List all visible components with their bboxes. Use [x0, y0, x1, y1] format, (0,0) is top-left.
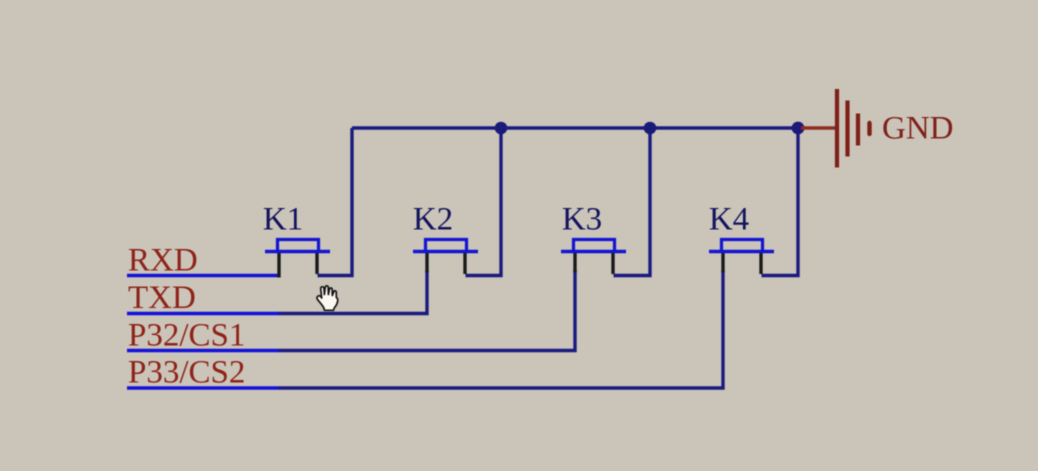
svg-text:K2: K2 [413, 202, 453, 238]
svg-text:K3: K3 [562, 202, 602, 238]
svg-text:P33/CS2: P33/CS2 [128, 355, 245, 391]
svg-text:K4: K4 [709, 202, 749, 238]
wire: P33/CS2 to K4 left pin [279, 270, 723, 388]
push button K1 [265, 240, 330, 278]
svg-text:TXD: TXD [128, 280, 196, 316]
push button K2 [413, 240, 478, 275]
svg-text:RXD: RXD [128, 243, 198, 279]
junction at bus / GND [792, 122, 805, 135]
junction at bus / K3 branch [644, 122, 657, 135]
terminal wire TXD [127, 312, 280, 316]
svg-text:K1: K1 [263, 202, 303, 238]
push button K4 [709, 240, 774, 275]
wire: K3 right pin to bus [614, 128, 651, 276]
terminal wire P33/CS2 [127, 386, 280, 390]
wire: K1 right pin to bus [318, 128, 353, 276]
junction at bus / K2 branch [495, 122, 508, 135]
terminal wire P32/CS1 [127, 349, 280, 353]
wire: TXD to K2 left pin [279, 270, 427, 314]
svg-text:P32/CS1: P32/CS1 [128, 318, 245, 354]
svg-text:GND: GND [882, 111, 954, 147]
wire: P32/CS1 to K3 left pin [279, 270, 575, 351]
terminal wire RXD [127, 274, 280, 278]
ground symbol [801, 89, 870, 168]
pan cursor (hand) [317, 286, 338, 311]
wire: GND bus (top horizontal) [352, 126, 799, 129]
wire: K2 right pin to bus [466, 128, 502, 276]
push button K3 [561, 240, 626, 275]
wire: K4 right pin to bus [762, 128, 799, 276]
